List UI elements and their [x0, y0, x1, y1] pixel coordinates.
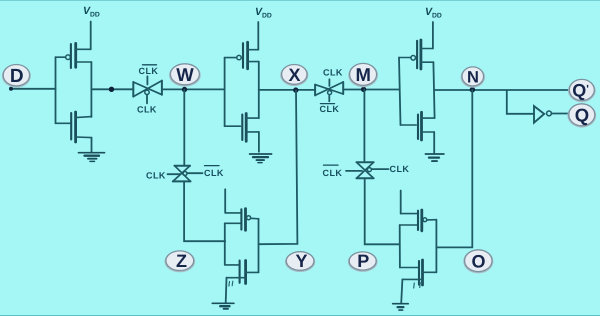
svg-text:CLK: CLK [139, 66, 159, 76]
stray tick marks near U5 ground [414, 283, 421, 289]
wire: U3 output to node N to output Q' [435, 89, 570, 91]
wire: U5 output rail [435, 220, 437, 273]
svg-text:N: N [467, 69, 479, 87]
wire: TG1 to node W to inverter U2 [162, 88, 225, 90]
junction: node X [294, 88, 299, 93]
junction: node M [361, 87, 366, 92]
transistor PMOS (inverter U4) [225, 209, 259, 231]
wire: node W down to transmission gate TG3 [183, 90, 185, 166]
label CLKbar (TG3 right) [204, 166, 224, 178]
transmission gate TG4 [346, 162, 389, 178]
svg-text:P: P [357, 251, 369, 271]
wire: U1 input gate rail [55, 57, 57, 123]
wire: V_DD lead (U1) [90, 22, 92, 50]
label CLK (TG3 left) [146, 171, 166, 181]
node N [461, 67, 485, 88]
transmission gate TG1 [133, 76, 162, 103]
ground (U2) [250, 154, 272, 163]
wire: TG2 to node M to inverter U3 [343, 89, 399, 91]
wire: U1 output to transmission gate TG1 [91, 88, 133, 90]
wire: U4 NMOS source to ground [225, 278, 228, 303]
wire: V_DD lead (U2) [257, 22, 259, 50]
wire: U2 output rail [258, 62, 260, 119]
svg-text:D: D [10, 66, 24, 87]
transistor PMOS (inverter U5) [400, 210, 437, 231]
junction: node N [470, 87, 475, 92]
wire: U6 output to node Q [552, 113, 569, 115]
wire: U4 output rail [258, 219, 260, 273]
node D [2, 64, 31, 87]
wire: TG4 down to node P and to inverter U5 input [365, 178, 400, 244]
wire: U1 output rail [90, 62, 92, 117]
wire: U2 output to transmission gate TG2 [259, 89, 315, 91]
wire: U1 NMOS source to ground [91, 138, 93, 153]
wire: U3 NMOS source to ground [433, 132, 435, 153]
ground (U3) [425, 154, 444, 161]
wire: V_DD stub (U4) [224, 189, 226, 213]
wire: node N down to U5 output [436, 90, 472, 248]
transistor PMOS (inverter U3) [399, 40, 433, 69]
transistor PMOS (inverter U1) [56, 43, 92, 68]
wire: U2 NMOS source to ground [258, 132, 260, 152]
node Q [567, 103, 596, 127]
transmission gate TG2 [315, 79, 343, 101]
node Y [285, 251, 315, 272]
wire: U5 input gate rail [399, 225, 401, 268]
transistor NMOS (inverter U1) [56, 112, 92, 142]
power V_DD (U2) [255, 6, 272, 20]
transmission gate TG3 [168, 166, 203, 182]
label CLKbar (TG4 left) [323, 165, 343, 178]
wire: TG3 down to node Z and to inverter U4 input [184, 181, 225, 241]
svg-text:CLK: CLK [390, 164, 410, 174]
ground (U5) [393, 304, 409, 310]
wire: V_DD stub (U5) [400, 191, 402, 214]
svg-text:O: O [471, 251, 485, 271]
wire: node M down to transmission gate TG4 [363, 90, 365, 163]
svg-text:Y: Y [295, 251, 307, 271]
transistor NMOS (inverter U5) [400, 260, 437, 285]
transistor NMOS (inverter U2) [225, 114, 259, 142]
node Q' [568, 79, 596, 102]
label CLKbar (TG2 bottom) [320, 104, 340, 114]
transistor NMOS (inverter U3) [401, 112, 435, 140]
power V_DD (U1) [83, 5, 100, 19]
wire: U3 output rail [433, 62, 434, 118]
svg-text:M: M [355, 64, 370, 85]
ground (U1) [79, 153, 105, 162]
svg-text:CLK: CLK [320, 104, 340, 114]
transistor NMOS (inverter U4) [225, 261, 259, 284]
stray tick marks near U4 ground [229, 281, 233, 286]
label CLK (TG4 right) [390, 164, 410, 174]
label CLK (TG1 bottom) [137, 105, 157, 115]
svg-text:Z: Z [176, 251, 187, 271]
node W [169, 63, 201, 86]
wire: U4 input gate rail [224, 223, 226, 264]
label CLK (TG2 top) [323, 68, 343, 78]
svg-text:CLK: CLK [323, 168, 343, 178]
node P [348, 251, 378, 272]
wire: branch from Q' line down to output inverter U6 [507, 90, 534, 113]
svg-text:CLK: CLK [323, 68, 343, 78]
svg-text:CLK: CLK [204, 168, 224, 178]
node X [280, 64, 308, 86]
node O [463, 249, 493, 273]
svg-text:CLK: CLK [137, 105, 157, 115]
junction: node W [182, 87, 187, 92]
svg-text:CLK: CLK [146, 171, 166, 181]
node Z [165, 251, 196, 273]
wire: U5 NMOS source to ground [401, 279, 402, 303]
junction: U1 output node [109, 87, 114, 92]
svg-text:W: W [176, 64, 194, 85]
transistor PMOS (inverter U2) [225, 42, 259, 68]
wire: node X down to U4 output [259, 90, 298, 244]
node M [348, 63, 378, 87]
svg-text:Q: Q [575, 105, 589, 126]
inverter U6 (Q output buffer) [534, 106, 551, 123]
label CLKbar (TG1 top) [139, 65, 159, 76]
svg-text:X: X [288, 65, 300, 85]
wire: V_DD lead (U3) [432, 22, 434, 49]
wire: U2 input gate rail [224, 58, 226, 127]
wire: input D to inverter U1 gate rail [9, 87, 56, 91]
power V_DD (U3) [425, 6, 442, 20]
ground (U4) [212, 303, 234, 309]
wire: U3 input gate rail [399, 58, 401, 126]
